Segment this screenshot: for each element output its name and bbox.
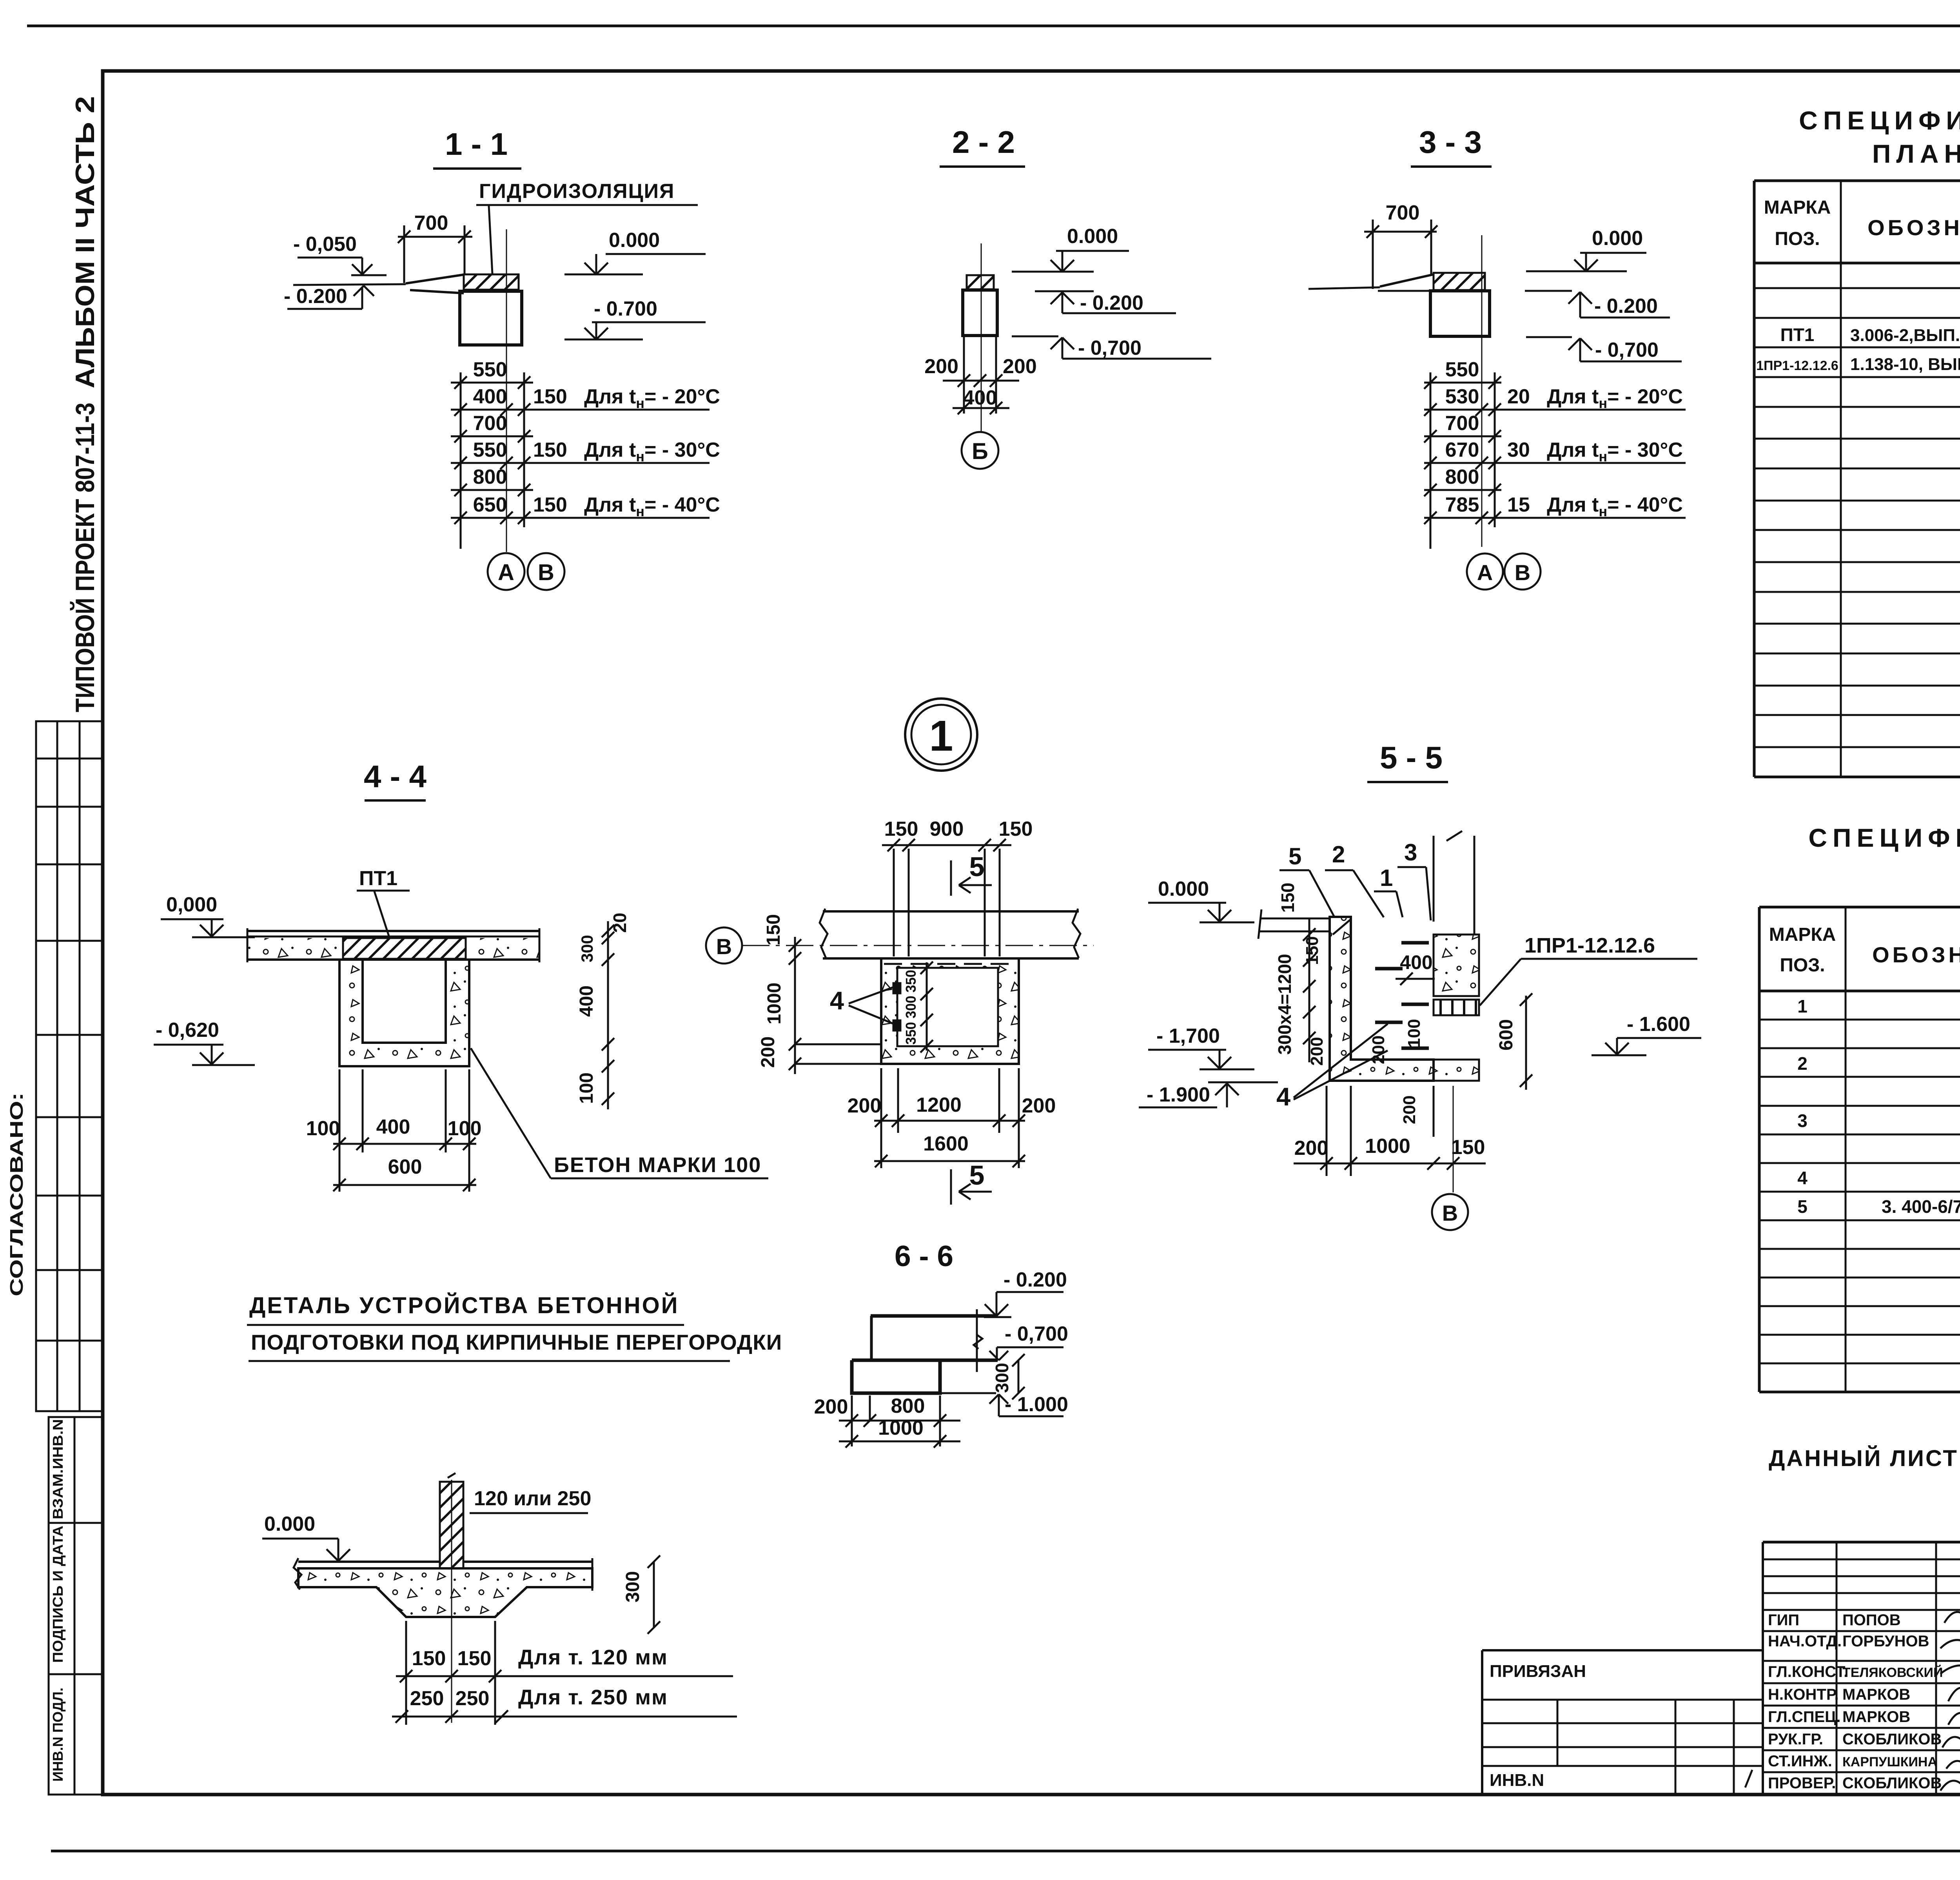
svg-text:20 Для tн= - 20°С: 20 Для tн= - 20°С bbox=[1507, 385, 1683, 411]
svg-text:ПТ1: ПТ1 bbox=[1780, 325, 1815, 345]
svg-text:Н.КОНТР.: Н.КОНТР. bbox=[1768, 1686, 1839, 1703]
dim ladder (3-3) bbox=[1430, 372, 1432, 549]
svg-text:ТЕЛЯКОВСКИЙ: ТЕЛЯКОВСКИЙ bbox=[1842, 1665, 1943, 1680]
svg-text:5: 5 bbox=[1797, 1196, 1808, 1217]
svg-text:100: 100 bbox=[448, 1117, 482, 1140]
svg-text:ВЗАМ.ИНВ.N: ВЗАМ.ИНВ.N bbox=[50, 1419, 66, 1519]
grate dashed line (node1) bbox=[884, 963, 1016, 965]
svg-text:- 1.600: - 1.600 bbox=[1627, 1013, 1690, 1036]
svg-text:СТ.ИНЖ.: СТ.ИНЖ. bbox=[1768, 1753, 1832, 1770]
svg-text:1ПР1-12.12.6: 1ПР1-12.12.6 bbox=[1756, 358, 1838, 373]
ground line and blind area (3-3) bbox=[1308, 287, 1380, 289]
svg-text:670: 670 bbox=[1445, 439, 1479, 461]
svg-text:5: 5 bbox=[969, 851, 985, 882]
right bottom slab (5-5) bbox=[1434, 1060, 1479, 1081]
svg-text:ОБОЗНАЧЕНИЕ: ОБОЗНАЧЕНИЕ bbox=[1867, 215, 1960, 240]
svg-text:- 0,620: - 0,620 bbox=[156, 1019, 219, 1042]
svg-text:- 1.900: - 1.900 bbox=[1147, 1083, 1210, 1106]
svg-text:785: 785 bbox=[1445, 494, 1479, 516]
svg-text:ДЕТАЛЬ УСТРОЙСТВА БЕТОННОЙ: ДЕТАЛЬ УСТРОЙСТВА БЕТОННОЙ bbox=[249, 1293, 679, 1318]
spec table 2 grid bbox=[1759, 906, 1960, 909]
svg-text:1200: 1200 bbox=[916, 1094, 962, 1116]
svg-text:700: 700 bbox=[414, 212, 448, 234]
left break (detail) bbox=[294, 1558, 301, 1590]
svg-text:- 1.000: - 1.000 bbox=[1005, 1393, 1068, 1416]
svg-text:- 0.200: - 0.200 bbox=[284, 285, 347, 308]
brick wall hatched (detail) bbox=[440, 1482, 463, 1568]
svg-text:150: 150 bbox=[1303, 936, 1322, 965]
angle edge at wall top (5-5) bbox=[1333, 919, 1351, 935]
floor slab left (5-5) bbox=[1260, 918, 1330, 920]
foundation block (2-2) bbox=[963, 290, 997, 336]
svg-text:900: 900 bbox=[930, 818, 964, 840]
svg-text:0.000: 0.000 bbox=[1158, 878, 1209, 900]
svg-text:300: 300 bbox=[992, 1363, 1012, 1393]
svg-text:БЕТОН МАРКИ 100: БЕТОН МАРКИ 100 bbox=[554, 1153, 761, 1177]
svg-text:1 - 1: 1 - 1 bbox=[445, 127, 508, 162]
svg-text:СКОБЛИКОВ: СКОБЛИКОВ bbox=[1842, 1775, 1942, 1792]
svg-text:200: 200 bbox=[814, 1395, 848, 1418]
svg-text:3 - 3: 3 - 3 bbox=[1419, 125, 1482, 160]
floor slab with concrete band (4-4) bbox=[247, 938, 539, 960]
pit left wall stippled (5-5) bbox=[1330, 917, 1434, 1081]
svg-text:150: 150 bbox=[412, 1647, 446, 1670]
upper step slab (6-6) bbox=[871, 1314, 996, 1318]
svg-text:- 0,050: - 0,050 bbox=[293, 233, 357, 256]
lower step slab (6-6) bbox=[852, 1359, 998, 1362]
svg-text:ГЛ.КОНСТ.: ГЛ.КОНСТ. bbox=[1768, 1663, 1848, 1680]
svg-text:200: 200 bbox=[1400, 1095, 1419, 1124]
svg-text:200: 200 bbox=[1294, 1137, 1328, 1160]
svg-text:ИНВ.N ПОДЛ.: ИНВ.N ПОДЛ. bbox=[50, 1688, 66, 1782]
svg-text:Для т. 120 мм: Для т. 120 мм bbox=[518, 1646, 668, 1669]
axis line (detail) bbox=[451, 1480, 452, 1723]
svg-text:ГИДРОИЗОЛЯЦИЯ: ГИДРОИЗОЛЯЦИЯ bbox=[479, 180, 675, 203]
svg-text:1000: 1000 bbox=[1365, 1135, 1410, 1158]
svg-text:20: 20 bbox=[610, 913, 630, 933]
pit cavity (node1) bbox=[897, 968, 998, 1046]
svg-text:300х4=1200: 300х4=1200 bbox=[1274, 954, 1295, 1054]
svg-text:350: 350 bbox=[903, 1022, 919, 1045]
svg-text:350: 350 bbox=[903, 970, 919, 993]
axis line (1-1) bbox=[506, 229, 507, 552]
svg-text:ДАННЫЙ ЛИСТ СМ. СОВМЕСТНО: ДАННЫЙ ЛИСТ СМ. СОВМЕСТНО С ЛИСТОМ 7 bbox=[1769, 1446, 1960, 1471]
concrete prep band (detail) bbox=[298, 1568, 592, 1617]
svg-text:600: 600 bbox=[388, 1156, 422, 1178]
pit walls stippled (node1) bbox=[881, 958, 1019, 1064]
left dim stack (node1) bbox=[794, 937, 796, 1074]
sheet outer top border bbox=[27, 25, 1960, 27]
svg-text:РУК.ГР.: РУК.ГР. bbox=[1768, 1731, 1823, 1748]
axis circle A (3-3) bbox=[1467, 553, 1503, 590]
axis line (2-2) bbox=[981, 243, 982, 431]
svg-text:В: В bbox=[538, 560, 554, 585]
floor slab (node1) bbox=[823, 910, 1079, 913]
signatures scribbles bbox=[1944, 1608, 1960, 1623]
svg-text:ПРОВЕР.: ПРОВЕР. bbox=[1768, 1775, 1836, 1792]
approval column (soglasovano) bbox=[36, 721, 102, 1411]
svg-text:СПЕЦИФИКАЦИЯ СТАЛИ НА ПРИЯМ: СПЕЦИФИКАЦИЯ СТАЛИ НА ПРИЯМОК bbox=[1808, 823, 1960, 852]
svg-text:ИНВ.N: ИНВ.N bbox=[1490, 1771, 1544, 1790]
svg-text:150: 150 bbox=[884, 818, 918, 840]
svg-text:100: 100 bbox=[576, 1072, 597, 1104]
svg-text:В: В bbox=[716, 934, 732, 959]
svg-text:120 или 250: 120 или 250 bbox=[474, 1487, 591, 1510]
svg-text:2: 2 bbox=[1332, 841, 1345, 867]
wall above (5-5) bbox=[1433, 836, 1435, 922]
svg-text:СОГЛАСОВАНО:: СОГЛАСОВАНО: bbox=[6, 1092, 27, 1296]
svg-text:400: 400 bbox=[576, 985, 597, 1017]
svg-text:2: 2 bbox=[1797, 1053, 1808, 1074]
axis circle B (1-1) bbox=[528, 553, 564, 590]
svg-text:700: 700 bbox=[473, 412, 507, 435]
svg-text:СКОБЛИКОВ: СКОБЛИКОВ bbox=[1842, 1731, 1942, 1748]
ladder rungs item 4 (5-5) bbox=[1401, 941, 1429, 945]
privyazan table bbox=[1482, 1649, 1763, 1651]
svg-text:- 1,700: - 1,700 bbox=[1156, 1025, 1220, 1047]
svg-text:550: 550 bbox=[473, 439, 507, 461]
axis circle A (1-1) bbox=[488, 553, 524, 590]
hook anchors item 4 (node1) bbox=[893, 983, 900, 993]
svg-text:АЛЬБОМ II: АЛЬБОМ II bbox=[70, 238, 100, 388]
axis dash-dot line (node1) bbox=[742, 945, 1094, 946]
svg-text:МАРКА: МАРКА bbox=[1769, 924, 1836, 945]
section arrow 5 top (node1) bbox=[950, 860, 952, 896]
svg-text:3.006-2,ВЫП.II-2; II-4: 3.006-2,ВЫП.II-2; II-4 bbox=[1850, 326, 1960, 345]
svg-text:1: 1 bbox=[929, 712, 953, 760]
svg-text:300: 300 bbox=[578, 935, 596, 962]
svg-text:0.000: 0.000 bbox=[1067, 225, 1118, 248]
axis circle B(Б) (2-2) bbox=[962, 432, 998, 469]
svg-text:200: 200 bbox=[1022, 1094, 1056, 1117]
svg-text:150 Для tн= - 30°С: 150 Для tн= - 30°С bbox=[533, 439, 720, 465]
section arrow 5 bottom (node1) bbox=[950, 1169, 952, 1205]
svg-text:МАРКА: МАРКА bbox=[1764, 197, 1831, 218]
svg-text:150: 150 bbox=[763, 914, 784, 945]
svg-text:4 - 4: 4 - 4 bbox=[364, 759, 427, 794]
svg-text:ПОЗ.: ПОЗ. bbox=[1780, 955, 1825, 976]
svg-text:200: 200 bbox=[1307, 1037, 1327, 1065]
dim ladder (1-1) bbox=[460, 372, 462, 549]
svg-text:300: 300 bbox=[622, 1571, 643, 1602]
svg-text:ПЛАНУ ФУНДАМЕНТОВ: ПЛАНУ ФУНДАМЕНТОВ bbox=[1872, 139, 1960, 168]
svg-text:650: 650 bbox=[473, 494, 507, 516]
svg-text:400: 400 bbox=[473, 385, 507, 408]
svg-text:1.138-10, ВЫП.1: 1.138-10, ВЫП.1 bbox=[1850, 355, 1960, 374]
svg-text:4: 4 bbox=[1797, 1168, 1808, 1188]
svg-text:- 0.200: - 0.200 bbox=[1080, 292, 1143, 314]
svg-text:15 Для tн= - 40°С: 15 Для tн= - 40°С bbox=[1507, 494, 1683, 519]
svg-text:- 0.700: - 0.700 bbox=[594, 298, 657, 320]
svg-text:5: 5 bbox=[969, 1160, 985, 1190]
svg-text:2 - 2: 2 - 2 bbox=[952, 125, 1015, 160]
channel walls stippled (4-4) bbox=[339, 960, 469, 1066]
svg-text:0.000: 0.000 bbox=[609, 229, 660, 252]
right edge serif (detail) bbox=[592, 1558, 593, 1591]
sheet outer bottom border bbox=[51, 1850, 1960, 1853]
svg-text:150: 150 bbox=[999, 818, 1033, 840]
svg-text:200: 200 bbox=[1003, 355, 1037, 378]
svg-text:ПОДГОТОВКИ ПОД КИРПИЧНЫЕ ПЕРЕГ: ПОДГОТОВКИ ПОД КИРПИЧНЫЕ ПЕРЕГОРОДКИ bbox=[251, 1330, 782, 1354]
svg-text:НАЧ.ОТД.: НАЧ.ОТД. bbox=[1768, 1633, 1842, 1650]
lintel hatched strip (5-5) bbox=[1434, 1000, 1479, 1015]
svg-text:ПРИВЯЗАН: ПРИВЯЗАН bbox=[1490, 1662, 1586, 1681]
foundation block (1-1) bbox=[460, 291, 522, 345]
svg-text:200: 200 bbox=[848, 1094, 882, 1117]
svg-text:1: 1 bbox=[1380, 865, 1393, 891]
svg-text:ПТ1: ПТ1 bbox=[359, 867, 397, 890]
svg-text:5 - 5: 5 - 5 bbox=[1380, 740, 1443, 775]
svg-text:800: 800 bbox=[473, 466, 507, 488]
svg-text:400: 400 bbox=[963, 387, 997, 409]
svg-text:- 0,700: - 0,700 bbox=[1078, 337, 1142, 359]
foundation block (3-3) bbox=[1430, 291, 1490, 336]
extension with break (6-6) bbox=[976, 1309, 978, 1372]
spec table 1 grid bbox=[1754, 180, 1960, 182]
svg-text:250: 250 bbox=[410, 1687, 444, 1710]
svg-text:3: 3 bbox=[1404, 839, 1417, 866]
svg-text:СПЕЦИФИКАЦИЯ ЭЛЕМЕНТОВ К: СПЕЦИФИКАЦИЯ ЭЛЕМЕНТОВ К bbox=[1799, 106, 1960, 135]
svg-text:1600: 1600 bbox=[923, 1132, 969, 1155]
svg-text:- 0.200: - 0.200 bbox=[1594, 295, 1658, 318]
svg-text:1000: 1000 bbox=[764, 983, 785, 1025]
svg-text:150: 150 bbox=[457, 1647, 492, 1670]
svg-text:ПОДПИСЬ И ДАТА: ПОДПИСЬ И ДАТА bbox=[50, 1526, 66, 1663]
svg-text:4: 4 bbox=[1276, 1082, 1290, 1111]
signature table bbox=[1763, 1541, 1960, 1544]
svg-text:4: 4 bbox=[830, 986, 844, 1015]
svg-text:ЧАСТЬ 2: ЧАСТЬ 2 bbox=[70, 96, 100, 229]
precast block stippled (5-5) bbox=[1434, 935, 1479, 996]
svg-text:30 Для tн= - 30°С: 30 Для tн= - 30°С bbox=[1507, 439, 1683, 465]
svg-text:100: 100 bbox=[1405, 1019, 1424, 1047]
svg-text:800: 800 bbox=[891, 1395, 925, 1417]
svg-text:Б: Б bbox=[972, 439, 988, 464]
svg-text:150: 150 bbox=[1451, 1136, 1485, 1159]
svg-text:МАРКОВ: МАРКОВ bbox=[1842, 1686, 1910, 1703]
svg-text:400: 400 bbox=[376, 1116, 410, 1138]
svg-text:150: 150 bbox=[1278, 883, 1298, 913]
svg-text:ПОЗ.: ПОЗ. bbox=[1775, 229, 1820, 249]
svg-text:400: 400 bbox=[1400, 951, 1432, 973]
svg-text:ПОПОВ: ПОПОВ bbox=[1842, 1611, 1901, 1629]
svg-text:150 Для tн= - 40°С: 150 Для tн= - 40°С bbox=[533, 494, 720, 519]
floor lines (detail) bbox=[298, 1561, 440, 1563]
axis line to circle V (5-5) bbox=[1453, 1086, 1454, 1192]
svg-text:3: 3 bbox=[1797, 1111, 1808, 1131]
svg-text:3. 400-6/76: 3. 400-6/76 bbox=[1882, 1196, 1960, 1217]
axis line (3-3) bbox=[1481, 235, 1483, 547]
svg-text:200: 200 bbox=[758, 1036, 779, 1068]
axis circle V (5-5) bbox=[1432, 1194, 1468, 1230]
svg-text:600: 600 bbox=[1496, 1019, 1517, 1051]
channel cavity (4-4) bbox=[363, 960, 446, 1043]
svg-text:1000: 1000 bbox=[878, 1417, 924, 1439]
ground line and blind area (1-1) bbox=[293, 284, 406, 285]
svg-text:ТИПОВОЙ ПРОЕКТ 807-11-3: ТИПОВОЙ ПРОЕКТ 807-11-3 bbox=[70, 403, 100, 712]
svg-text:Для т. 250 мм: Для т. 250 мм bbox=[518, 1686, 668, 1709]
svg-text:300: 300 bbox=[903, 996, 919, 1018]
svg-text:- 0,700: - 0,700 bbox=[1595, 339, 1659, 361]
svg-text:700: 700 bbox=[1386, 201, 1420, 224]
svg-text:0.000: 0.000 bbox=[1592, 227, 1643, 250]
svg-text:6 - 6: 6 - 6 bbox=[895, 1239, 953, 1272]
svg-text:700: 700 bbox=[1445, 412, 1479, 435]
inventory boxes column bbox=[49, 1417, 102, 1795]
cap hatched (2-2) bbox=[967, 275, 994, 289]
right dim stack (4-4) bbox=[607, 921, 609, 1109]
waterproofing cap hatched (1-1) bbox=[464, 274, 519, 290]
svg-text:800: 800 bbox=[1445, 466, 1479, 488]
svg-text:550: 550 bbox=[1445, 358, 1479, 381]
svg-text:КАРПУШКИНА: КАРПУШКИНА bbox=[1842, 1755, 1937, 1769]
svg-text:ГЛ.СПЕЦ.: ГЛ.СПЕЦ. bbox=[1768, 1708, 1841, 1726]
svg-text:530: 530 bbox=[1445, 385, 1479, 408]
svg-text:1ПР1-12.12.6: 1ПР1-12.12.6 bbox=[1524, 934, 1655, 957]
axis circle V (node1) bbox=[706, 927, 742, 964]
svg-text:- 0.200: - 0.200 bbox=[1004, 1268, 1067, 1291]
svg-text:0.000: 0.000 bbox=[264, 1513, 315, 1535]
svg-text:0,000: 0,000 bbox=[166, 893, 217, 916]
svg-text:В: В bbox=[1442, 1201, 1458, 1225]
svg-text:- 0,700: - 0,700 bbox=[1005, 1323, 1068, 1345]
svg-text:А: А bbox=[1477, 560, 1493, 585]
cap hatched (3-3) bbox=[1434, 273, 1485, 290]
svg-text:ОБОЗНАЧЕНИЕ: ОБОЗНАЧЕНИЕ bbox=[1872, 942, 1960, 967]
node 1 marker double circle bbox=[905, 699, 977, 771]
svg-text:МАРКОВ: МАРКОВ bbox=[1842, 1708, 1910, 1726]
svg-text:1: 1 bbox=[1797, 996, 1808, 1016]
svg-text:150 Для tн= - 20°С: 150 Для tн= - 20°С bbox=[533, 385, 720, 411]
svg-text:550: 550 bbox=[473, 358, 507, 381]
PT1 slab plate hatched (4-4) bbox=[343, 938, 466, 959]
svg-text:А: А bbox=[498, 560, 514, 585]
svg-text:ГИП: ГИП bbox=[1768, 1611, 1799, 1629]
bottom dims 100 400 100 600 (4-4) bbox=[339, 1069, 341, 1192]
svg-text:100: 100 bbox=[306, 1117, 340, 1140]
svg-text:200: 200 bbox=[924, 355, 958, 378]
axis circle B (3-3) bbox=[1504, 553, 1541, 590]
svg-text:250: 250 bbox=[456, 1687, 490, 1710]
svg-text:5: 5 bbox=[1289, 843, 1301, 869]
svg-text:ГОРБУНОВ: ГОРБУНОВ bbox=[1842, 1633, 1929, 1650]
svg-text:В: В bbox=[1515, 560, 1530, 585]
